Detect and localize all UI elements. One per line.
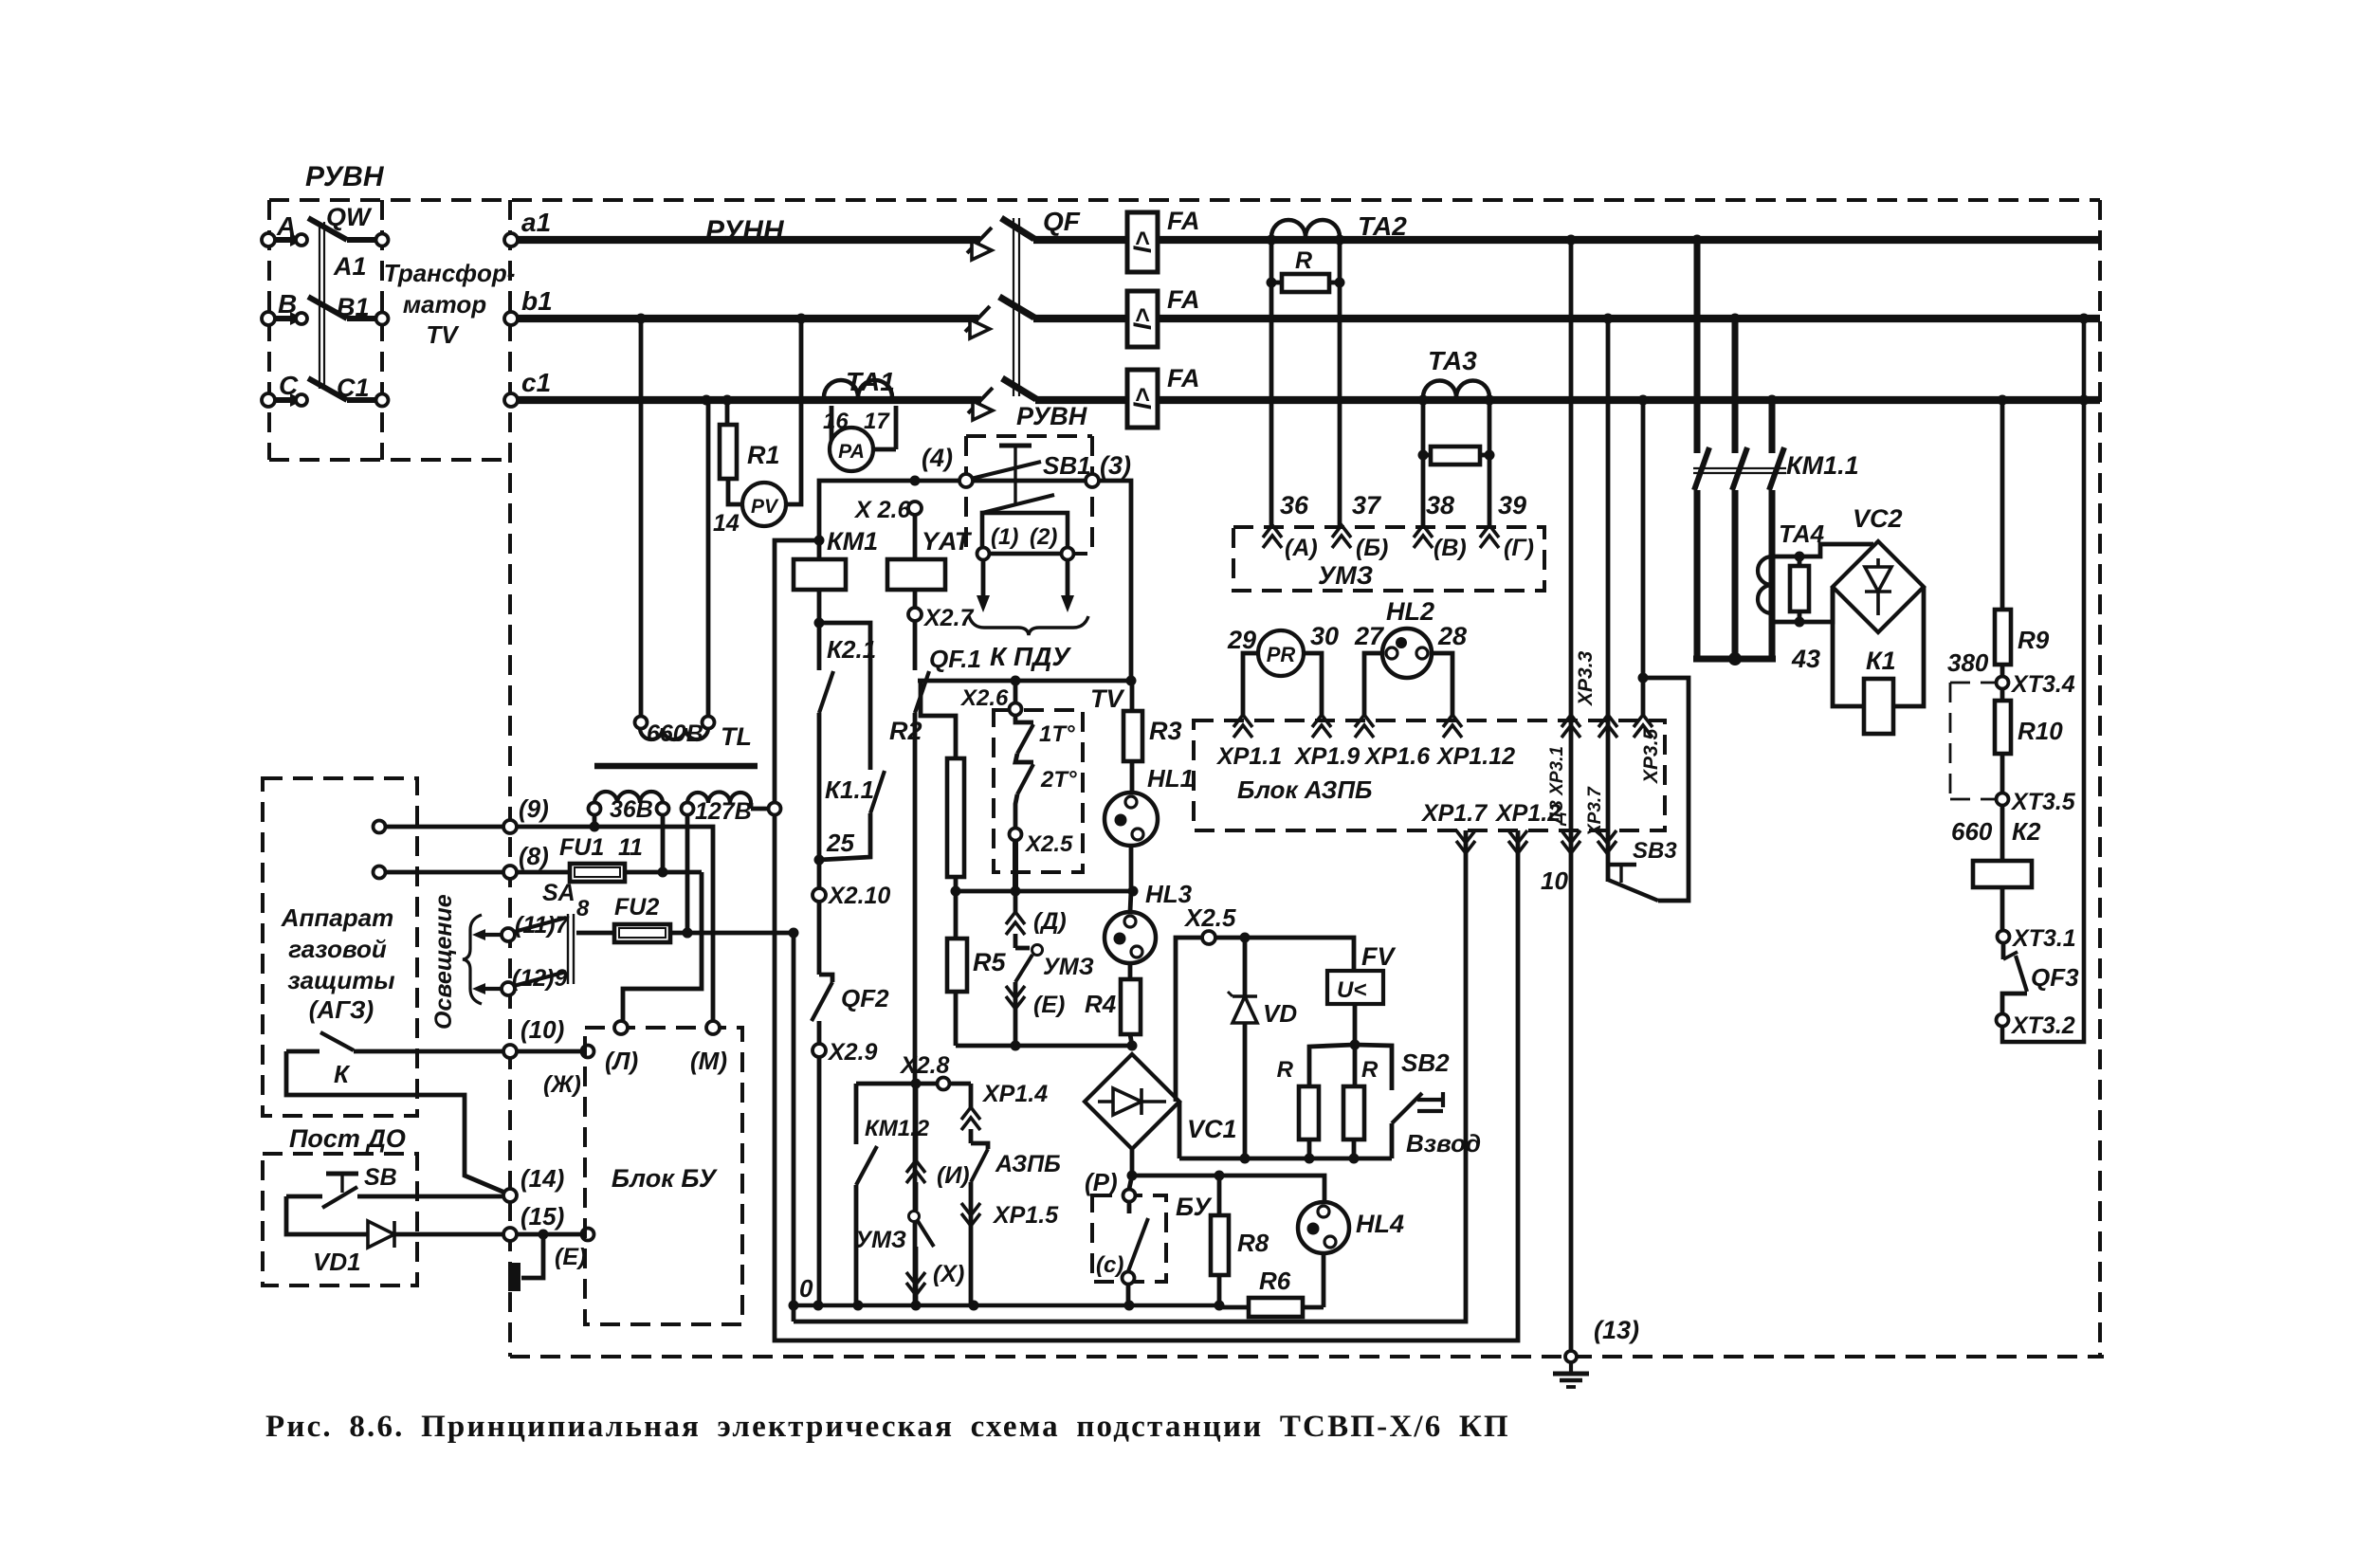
circuit breaker QF pole b: [965, 306, 990, 332]
svg-text:I>: I>: [1128, 388, 1157, 410]
dashed enclosure РУВН/РУНН boundary top: [269, 198, 2100, 202]
svg-text:НL1: НL1: [1147, 764, 1194, 793]
svg-text:(А): (А): [1285, 535, 1318, 561]
disconnector QW pole A: [262, 233, 275, 246]
svg-text:8: 8: [576, 896, 590, 921]
svg-text:43: 43: [1791, 645, 1820, 673]
svg-text:VD1: VD1: [313, 1248, 361, 1276]
svg-text:ХР1.1: ХР1.1: [1215, 743, 1282, 770]
svg-text:ХТ3.5: ХТ3.5: [2010, 789, 2076, 815]
svg-text:R1: R1: [747, 441, 780, 469]
wire SB3 to ХР3.5 loop: [1643, 678, 1689, 901]
wire PR to ХР1.1: [1243, 653, 1258, 718]
wire (Д)-(Е) rail: [956, 1044, 1132, 1048]
connector ХР1.2: [1508, 841, 1527, 853]
svg-text:Х2.6: Х2.6: [959, 685, 1009, 711]
svg-text:ХР1.7: ХР1.7: [1420, 800, 1488, 827]
svg-text:I>: I>: [1128, 308, 1157, 331]
wire VC1 negative rail: [1178, 1102, 1182, 1158]
svg-text:Освещение: Освещение: [430, 894, 457, 1030]
wire QF.1 down to 0-rail: [913, 713, 918, 1305]
contact УМЗ (Д-Е): [1014, 934, 1018, 948]
svg-text:К1: К1: [1866, 647, 1896, 675]
svg-text:b1: b1: [521, 286, 553, 316]
contact QF.1: [913, 621, 918, 670]
svg-text:R: R: [1277, 1057, 1294, 1083]
current transformer TA3 on bus c: [1423, 381, 1489, 398]
connector ХР3.5 (top): [1634, 715, 1653, 727]
svg-text:(3): (3): [1100, 451, 1131, 480]
svg-text:В: В: [278, 289, 297, 319]
fuse FA (overcurrent release) phase c: [1127, 370, 1158, 428]
connector (Д): [1014, 891, 1018, 912]
svg-text:Трансфор-: Трансфор-: [384, 259, 516, 287]
fuse FU1: [517, 870, 570, 875]
wire FU1 to БУ (Л): [623, 872, 702, 1021]
svg-text:PV: PV: [751, 496, 779, 518]
connector (И) and contact УМЗ: [914, 1084, 919, 1160]
svg-text:VD: VD: [1263, 999, 1297, 1028]
terminal (Л): [614, 1021, 628, 1034]
svg-text:SВ3: SВ3: [1633, 838, 1677, 864]
connector ХР1.12: [1443, 715, 1462, 727]
current transformer TA1 on bus c: [824, 380, 892, 397]
wire ХР1.7 to 0-rail: [794, 830, 1466, 1322]
svg-text:Х2.8: Х2.8: [899, 1052, 950, 1079]
earth terminal (13): [1565, 1351, 1577, 1362]
svg-text:ХТ3.1: ХТ3.1: [2011, 925, 2076, 952]
svg-text:УМЗ: УМЗ: [1043, 954, 1094, 980]
block Пост ДО (dashed box): [263, 1154, 417, 1285]
block АЗПБ (dashed box): [1194, 720, 1665, 830]
wire HL2 to ХР1.12: [1432, 653, 1452, 718]
svg-text:37: 37: [1352, 491, 1382, 520]
svg-text:УМЗ: УМЗ: [855, 1227, 906, 1253]
dashed boundary left (РУВН box): [267, 200, 271, 460]
svg-text:ТL: ТL: [721, 722, 752, 751]
chassis stub at (15): [521, 1234, 543, 1278]
transformer TL secondary 36В: [594, 792, 663, 803]
dashed boundary РУВН/transformer divider: [380, 200, 384, 460]
svg-text:матор: матор: [403, 290, 486, 319]
svg-text:Аппарат: Аппарат: [281, 903, 393, 932]
contact К1.1 branch: [819, 623, 870, 770]
contact К2.1: [819, 671, 833, 713]
resistor R10: [2000, 689, 2005, 701]
contact QF2: [817, 902, 822, 975]
svg-text:(4): (4): [922, 444, 953, 472]
svg-text:R8: R8: [1237, 1229, 1269, 1257]
svg-text:Х2.7: Х2.7: [922, 605, 975, 631]
fuse FA (overcurrent release) phase b: [1127, 291, 1158, 347]
svg-text:(15): (15): [520, 1202, 564, 1231]
lamp HL3: [1129, 846, 1134, 891]
svg-text:ТА2: ТА2: [1358, 211, 1407, 241]
svg-text:ХТ3.2: ХТ3.2: [2010, 1012, 2075, 1039]
breaker QF3: [2001, 943, 2006, 959]
bus b1: [511, 315, 978, 322]
svg-text:2Т°: 2Т°: [1040, 767, 1077, 793]
svg-text:(1): (1): [991, 524, 1018, 550]
pushbutton SB2 Взвод: [1355, 1045, 1392, 1090]
svg-text:660: 660: [1951, 817, 1993, 846]
wire КМ1 coil bottom: [817, 590, 822, 670]
svg-text:Х2.10: Х2.10: [827, 883, 890, 909]
svg-text:QW: QW: [326, 203, 373, 231]
svg-text:Блок БУ: Блок БУ: [612, 1164, 718, 1193]
svg-text:Х2.5: Х2.5: [1183, 903, 1236, 932]
wire К return to (14): [286, 1051, 507, 1194]
svg-text:К2: К2: [2012, 817, 2041, 846]
brace К ПДУ: [969, 616, 1088, 635]
svg-text:(с): (с): [1096, 1252, 1123, 1278]
svg-text:РУНН: РУНН: [705, 215, 785, 246]
resistor R5: [954, 891, 959, 939]
lamp HL2: [1382, 629, 1432, 678]
svg-text:HL2: HL2: [1386, 597, 1434, 626]
QW mechanical linkage: [319, 222, 320, 389]
terminal ХТ3.1: [2000, 887, 2005, 930]
transformer TL secondary 127В: [687, 793, 751, 804]
svg-text:U<: U<: [1337, 977, 1366, 1003]
ammeter PA: [830, 406, 834, 446]
svg-text:АЗПБ: АЗПБ: [995, 1151, 1061, 1177]
svg-text:защиты: защиты: [287, 966, 394, 994]
terminal X2.6 (lower): [1014, 681, 1018, 702]
pushbutton SB: [326, 1172, 358, 1176]
svg-text:(В): (В): [1434, 535, 1467, 561]
svg-text:А: А: [276, 211, 296, 241]
wire (15) to БУ (Е): [517, 1232, 581, 1237]
svg-text:КМ1.1: КМ1.1: [1786, 451, 1859, 480]
wire PR to ХР1.9: [1304, 653, 1322, 718]
svg-text:ХР1.9: ХР1.9: [1293, 743, 1360, 770]
svg-text:ДЗ ХР3.1: ДЗ ХР3.1: [1547, 746, 1567, 827]
terminal ХТ3.4: [2000, 665, 2005, 676]
resistor R3: [1130, 681, 1135, 711]
terminal X2.9: [817, 1021, 822, 1044]
svg-text:VС2: VС2: [1853, 504, 1903, 533]
svg-text:QF3: QF3: [2031, 963, 2079, 992]
pushbutton SB3: [1606, 863, 1636, 866]
disconnector QW pole C: [262, 393, 275, 407]
circuit breaker QF pole a: draw-out arrow and blade: [967, 228, 992, 253]
svg-text:Рис. 8.6. Принципиальная эл: Рис. 8.6. Принципиальная электрическая с…: [265, 1410, 1510, 1444]
svg-text:ТА1: ТА1: [846, 367, 895, 396]
pushbutton SB1: [959, 474, 973, 487]
wire (10) to БУ (Ж): [517, 1049, 581, 1054]
svg-text:(Р): (Р): [1085, 1168, 1118, 1196]
current transformer TA2 on bus a: [1271, 220, 1340, 237]
QF linkage: [1013, 218, 1014, 396]
connector ХР3.7 (bottom): [1598, 841, 1616, 853]
connector (Х): [914, 1247, 919, 1305]
resistors R R and button SB2: [1309, 1045, 1355, 1086]
svg-text:VС1: VС1: [1187, 1115, 1237, 1143]
svg-text:127В: 127В: [695, 798, 752, 825]
svg-text:(Ж): (Ж): [543, 1071, 581, 1098]
connector (Г) into УМЗ: [1480, 525, 1499, 538]
contact АЗПБ with ХР1.4/ХР1.5: [969, 1084, 974, 1107]
terminal ХТ3.5: [2000, 754, 2005, 793]
svg-text:ТА4: ТА4: [1779, 520, 1825, 548]
trip coil YAT: [913, 515, 918, 559]
resistor R (TA2 burden): [1271, 281, 1282, 285]
svg-text:С: С: [279, 371, 299, 400]
svg-text:FA: FA: [1167, 364, 1200, 392]
svg-text:FA: FA: [1167, 207, 1200, 235]
block БУ (dashed box): [1092, 1195, 1166, 1282]
connector (А) into УМЗ: [1263, 525, 1282, 538]
svg-text:QF: QF: [1043, 207, 1081, 236]
svg-text:(М): (М): [690, 1047, 727, 1075]
wire 127В right terminal: [749, 803, 754, 809]
transformer TL core: [594, 763, 758, 770]
wire K2 circuit return to bus b: [2002, 319, 2084, 1042]
wire X2.8 line: [856, 1082, 971, 1086]
voltmeter PV: [728, 479, 742, 504]
svg-text:R5: R5: [973, 948, 1006, 976]
wire АГЗ output to (9): [374, 821, 386, 833]
switch SA with contacts 7/8: [502, 928, 515, 941]
contact КМ1.2: [854, 1084, 859, 1144]
svg-text:FU1: FU1: [559, 834, 604, 861]
svg-text:Пост ДО: Пост ДО: [289, 1124, 406, 1153]
block Блок БУ (dashed box): [585, 1028, 742, 1324]
svg-text:В1: В1: [337, 293, 370, 321]
svg-text:К: К: [334, 1060, 351, 1088]
svg-text:К ПДУ: К ПДУ: [990, 642, 1071, 671]
svg-text:(Л): (Л): [605, 1047, 638, 1075]
diode VD1: [286, 1196, 368, 1234]
contactor coil KM1: [794, 559, 846, 590]
thermal contact box TV (dashed): [994, 710, 1083, 872]
svg-text:КМ1.2: КМ1.2: [865, 1116, 930, 1141]
gas protection box АГЗ (dashed): [263, 778, 417, 1116]
svg-text:(10): (10): [520, 1015, 564, 1044]
svg-text:ХР3.7: ХР3.7: [1585, 786, 1605, 837]
wire АГЗ output to (8): [374, 866, 386, 879]
resistor R4: [1128, 963, 1133, 979]
svg-text:ХТ3.4: ХТ3.4: [2010, 671, 2075, 698]
svg-text:(13): (13): [1594, 1316, 1639, 1344]
svg-text:SВ1: SВ1: [1043, 451, 1091, 480]
contactor KM1.1 three poles: [1694, 240, 1701, 453]
resistor R2: [921, 681, 956, 758]
svg-text:c1: c1: [521, 368, 551, 397]
wire ДЗ ХР3.1 from bus a to ground: [1569, 240, 1574, 1357]
KM1.1 common bar: [1693, 656, 1776, 663]
terminal (14): [503, 1189, 517, 1202]
svg-text:(14): (14): [520, 1164, 564, 1193]
rectifier bridge VC1: [1085, 1054, 1179, 1149]
svg-text:БУ: БУ: [1176, 1193, 1212, 1221]
svg-text:FU2: FU2: [614, 894, 659, 921]
wire ХР1.2 to 127V: [775, 815, 1518, 1340]
wire (Р) rail to HL4: [1132, 1176, 1324, 1202]
svg-text:газовой: газовой: [288, 935, 387, 963]
brace Освещение: [463, 915, 482, 1004]
wire 127В to КМ1 node: [775, 540, 819, 802]
svg-text:R: R: [1361, 1057, 1379, 1083]
svg-text:660В: 660В: [647, 720, 703, 747]
svg-text:РА: РА: [838, 441, 865, 463]
contact (С) in БУ: [1129, 1176, 1132, 1189]
svg-text:R6: R6: [1259, 1267, 1291, 1295]
wire FU2 to 0 riser: [670, 931, 794, 936]
svg-text:R2: R2: [889, 717, 922, 745]
terminal X2.7: [913, 590, 918, 608]
svg-text:Блок АЗПБ: Блок АЗПБ: [1237, 775, 1372, 804]
svg-text:SА: SА: [542, 880, 575, 906]
svg-text:(Е): (Е): [1033, 992, 1065, 1018]
wire ХР3.5 stub into АЗПБ: [1641, 678, 1646, 718]
wire TA4 to VC2: [1799, 544, 1873, 556]
block УМЗ (dashed box): [1233, 527, 1544, 591]
wire 127В left to FU2 line: [685, 815, 690, 933]
svg-text:ХР1.6: ХР1.6: [1363, 743, 1431, 770]
svg-text:(И): (И): [937, 1162, 970, 1189]
current transformer TA4: [1758, 556, 1772, 613]
svg-text:РУВН: РУВН: [1016, 402, 1087, 430]
wire VC1 output (Р): [1130, 1149, 1135, 1176]
terminal X2.10: [817, 860, 822, 888]
svg-text:(11)7: (11)7: [515, 912, 570, 939]
svg-text:QF.1: QF.1: [929, 645, 981, 673]
svg-text:1Т°: 1Т°: [1039, 721, 1075, 747]
wire FU2/0 riser: [792, 933, 796, 1322]
dashed boundary bottom: [510, 1355, 2104, 1358]
terminal (М): [706, 1021, 720, 1034]
wire TA2 secondary leads: [1269, 240, 1274, 527]
svg-text:НL4: НL4: [1356, 1210, 1404, 1238]
wire lamp rail: [956, 889, 1133, 894]
svg-text:R: R: [1295, 247, 1312, 274]
dashed tap box 380/660: [1950, 682, 1996, 684]
arrows to К ПДУ: [981, 559, 986, 597]
svg-text:(Б): (Б): [1356, 535, 1388, 561]
svg-text:ТV: ТV: [426, 320, 460, 349]
svg-text:10: 10: [1541, 866, 1568, 895]
svg-text:(Х): (Х): [933, 1261, 964, 1287]
svg-text:А1: А1: [333, 252, 367, 281]
resistor R9: [2000, 400, 2005, 610]
resistor R (TA4 burden): [1790, 566, 1809, 611]
wire X2.9 to 0-rail: [817, 1057, 822, 1305]
svg-text:28: 28: [1437, 622, 1467, 650]
svg-text:С1: С1: [337, 374, 370, 402]
wire HL2 to ХР1.6: [1364, 653, 1382, 718]
connector ХР1.9: [1312, 715, 1331, 727]
svg-text:38: 38: [1426, 491, 1454, 520]
svg-text:36: 36: [1280, 491, 1309, 520]
lamp HL1: [1130, 761, 1135, 793]
ground symbol: [1553, 1372, 1589, 1377]
svg-text:ХР1.12: ХР1.12: [1435, 743, 1515, 770]
bus a1: [511, 236, 980, 244]
svg-text:ХР1.4: ХР1.4: [981, 1081, 1048, 1107]
wire ХР3.5 to bus c: [1641, 400, 1646, 678]
resistor R1: [725, 400, 730, 425]
svg-text:PR: PR: [1267, 643, 1296, 666]
connector (Е): [1014, 982, 1018, 1046]
svg-text:QF2: QF2: [841, 984, 889, 1012]
terminal X2.5: [1015, 794, 1017, 828]
svg-text:36В: 36В: [610, 796, 653, 823]
svg-text:R9: R9: [2018, 626, 2050, 654]
relay PR: [1258, 630, 1304, 676]
svg-text:РУВН: РУВН: [305, 161, 385, 192]
svg-text:(Е): (Е): [555, 1244, 586, 1270]
rectifier bridge VC2: [1833, 541, 1924, 632]
wire (9) to 36В and (М): [517, 827, 713, 1021]
svg-text:Х 2.6: Х 2.6: [853, 497, 911, 523]
dashed boundary bottom of РУВН/transformer boxes: [269, 458, 510, 462]
bus c1: [511, 396, 981, 404]
svg-text:ХР3.5: ХР3.5: [1640, 728, 1662, 784]
svg-text:(2): (2): [1030, 524, 1057, 550]
0 rail: [794, 1304, 1219, 1308]
relay K1: [1833, 587, 1864, 706]
thermal contact 1Т°: [1015, 716, 1033, 722]
connector ХР1.7: [1456, 841, 1475, 853]
connector (В) into УМЗ: [1414, 525, 1433, 538]
dashed boundary right: [2098, 200, 2102, 1357]
svg-text:R4: R4: [1085, 990, 1117, 1018]
terminal (15): [503, 1228, 517, 1241]
diode VD: [1243, 938, 1248, 1158]
svg-text:Х2.5: Х2.5: [1024, 831, 1073, 857]
svg-text:25: 25: [826, 829, 854, 857]
svg-text:К1.1: К1.1: [825, 775, 874, 804]
svg-text:SВ: SВ: [364, 1164, 397, 1191]
wire TL primary from bus b: [639, 319, 644, 716]
wire 36В right to FU1 line: [661, 815, 666, 872]
connector ХР1.1: [1233, 715, 1252, 727]
svg-text:Взвод: Взвод: [1406, 1129, 1481, 1158]
resistor R8: [1217, 1176, 1222, 1215]
svg-text:(АГЗ): (АГЗ): [309, 995, 374, 1024]
svg-text:(8): (8): [519, 842, 549, 870]
undervoltage release FV: [1327, 971, 1383, 1004]
svg-text:(12)9: (12)9: [512, 965, 567, 992]
resistor R6: [1322, 1253, 1326, 1307]
wire X2.5 line: [1176, 938, 1354, 1102]
svg-text:(Г): (Г): [1504, 535, 1534, 561]
svg-text:380: 380: [1947, 648, 1989, 677]
svg-text:0: 0: [799, 1274, 813, 1303]
svg-text:39: 39: [1498, 491, 1526, 520]
wire top rail of control section: [918, 679, 1131, 684]
terminal (10): [503, 1045, 517, 1058]
connector ХР3.3 (top): [1598, 715, 1617, 727]
svg-text:11: 11: [618, 834, 643, 861]
svg-text:R10: R10: [2018, 717, 2063, 745]
svg-text:I>: I>: [1128, 231, 1157, 254]
wire ХР3.3/ХР3.7 from bus b: [1606, 319, 1611, 882]
fuse FA (overcurrent release) phase a: [1127, 212, 1158, 272]
terminal ХТ3.2: [1997, 1014, 2009, 1027]
svg-text:SВ2: SВ2: [1401, 1048, 1450, 1077]
svg-text:(9): (9): [519, 794, 549, 823]
svg-text:27: 27: [1354, 622, 1385, 650]
dashed box РУВН (SB1): [966, 434, 1092, 438]
svg-text:КМ1: КМ1: [827, 527, 878, 556]
fuse FU2: [576, 931, 614, 936]
svg-text:FA: FA: [1167, 285, 1200, 314]
wire TL primary from bus c: [706, 400, 711, 716]
svg-text:29: 29: [1227, 626, 1256, 654]
